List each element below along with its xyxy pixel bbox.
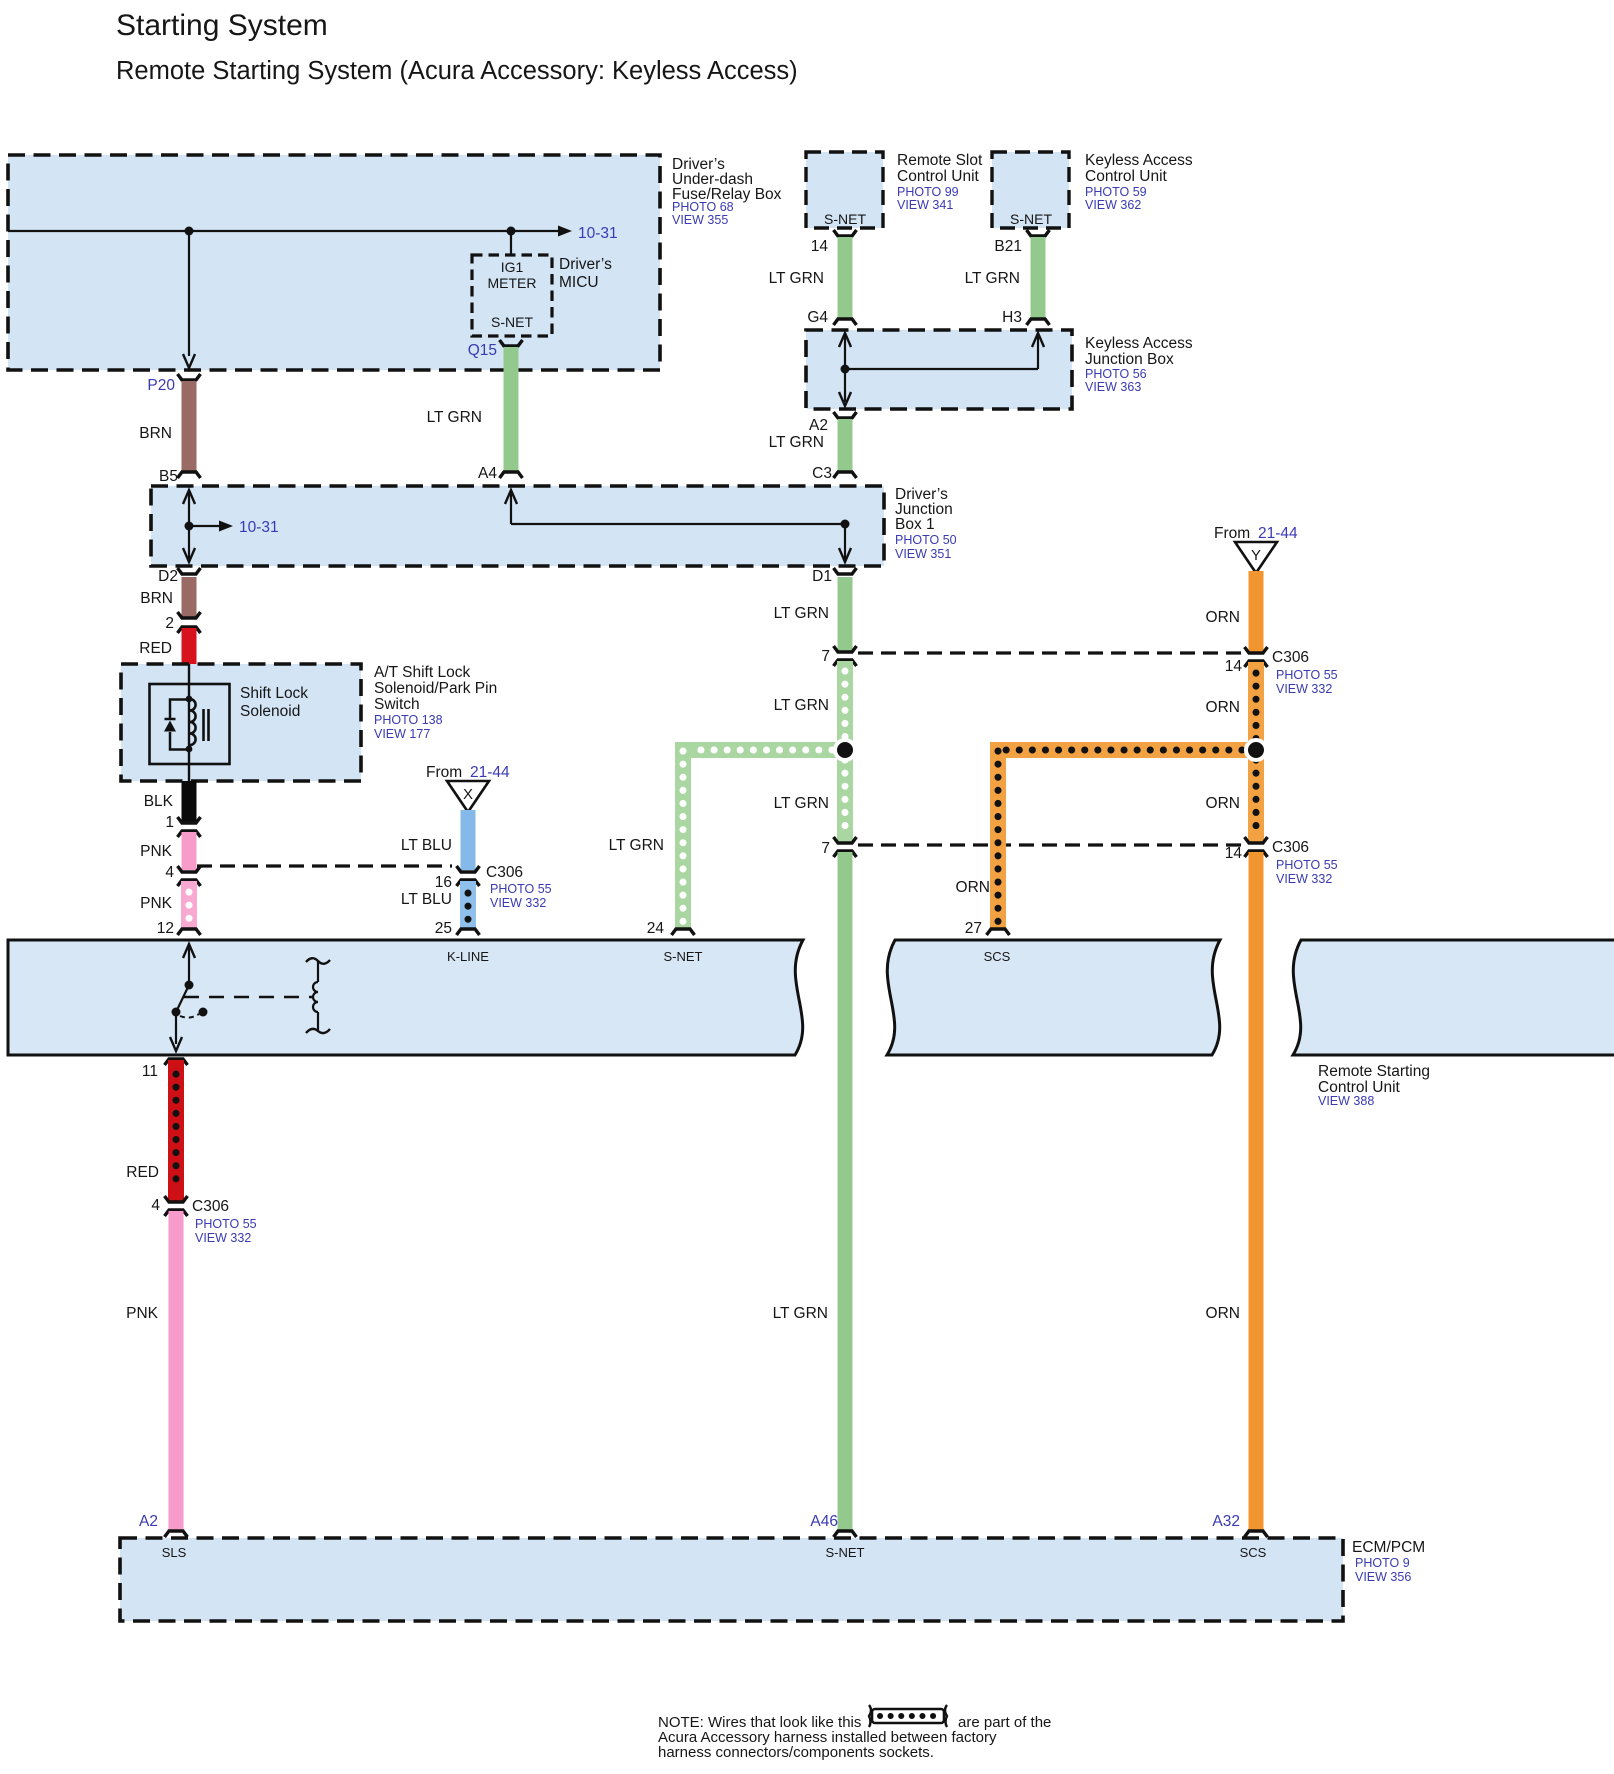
ECM/PCM box <box>120 1538 1425 1621</box>
svg-text:LT GRN: LT GRN <box>609 837 664 854</box>
wire LT GRN (B21 to H3) <box>965 237 1038 318</box>
svg-text:B5: B5 <box>159 468 178 485</box>
pin A32 (ECM) <box>1212 1513 1267 1537</box>
svg-text:PHOTO 68: PHOTO 68 <box>672 200 734 214</box>
svg-text:C306: C306 <box>1272 839 1309 856</box>
pin B21 <box>994 230 1049 255</box>
wire ORN (Y to 14) <box>1206 571 1256 652</box>
svg-text:From: From <box>1214 525 1250 542</box>
svg-text:A4: A4 <box>478 465 497 482</box>
wire BRN (D2 to 2) <box>140 577 189 617</box>
wire LT GRN dotted (7 to junction) <box>774 661 845 750</box>
svg-text:C3: C3 <box>812 465 832 482</box>
svg-text:27: 27 <box>965 920 982 937</box>
svg-text:ORN: ORN <box>1206 1305 1240 1322</box>
node From 21-44 (X) <box>426 764 510 812</box>
svg-text:LT GRN: LT GRN <box>774 795 829 812</box>
wire: internal bus in fuse/relay box <box>8 226 572 369</box>
svg-text:S-NET: S-NET <box>1010 211 1052 227</box>
svg-text:21-44: 21-44 <box>1258 525 1298 542</box>
connector pin 7 (first) <box>821 646 856 666</box>
svg-text:24: 24 <box>647 920 665 937</box>
pin 25 <box>435 920 480 937</box>
pin A2 (keyless junction box) <box>809 412 856 434</box>
svg-text:harness connectors/components: harness connectors/components sockets. <box>658 1744 934 1761</box>
wire LT GRN (A2 to C3) <box>769 419 845 471</box>
pin P20 <box>147 374 200 394</box>
svg-text:PNK: PNK <box>126 1305 159 1322</box>
svg-text:LT GRN: LT GRN <box>773 1305 828 1322</box>
wire PNK (4 to A2) <box>126 1211 176 1530</box>
svg-text:11: 11 <box>142 1063 158 1080</box>
svg-text:X: X <box>463 786 473 803</box>
svg-text:12: 12 <box>157 920 174 937</box>
svg-text:PHOTO 55: PHOTO 55 <box>490 882 552 896</box>
svg-text:RED: RED <box>126 1164 159 1181</box>
svg-text:LT GRN: LT GRN <box>427 409 482 426</box>
wire RED (2 to solenoid) <box>139 628 189 664</box>
svg-text:IG1: IG1 <box>501 259 524 275</box>
pin 24 <box>647 920 695 937</box>
svg-text:Remote Slot: Remote Slot <box>897 152 983 169</box>
svg-text:14: 14 <box>1225 658 1243 675</box>
wire LT GRN dotted branch (junction to 24) <box>609 750 845 928</box>
svg-text:METER: METER <box>488 275 537 291</box>
svg-text:LT BLU: LT BLU <box>401 891 452 908</box>
note dotted-wire glyph <box>869 1705 947 1727</box>
svg-text:RED: RED <box>139 640 172 657</box>
label: Driver's Under-dash Fuse/Relay Box <box>672 156 782 227</box>
svg-text:SCS: SCS <box>984 949 1011 964</box>
svg-text:10-31: 10-31 <box>239 519 279 536</box>
svg-text:PHOTO 50: PHOTO 50 <box>895 533 957 547</box>
svg-text:VIEW 388: VIEW 388 <box>1318 1094 1374 1108</box>
svg-text:Solenoid/Park Pin: Solenoid/Park Pin <box>374 680 497 697</box>
svg-text:14: 14 <box>811 238 829 255</box>
svg-text:ECM/PCM: ECM/PCM <box>1352 1539 1425 1556</box>
Driver's MICU sub-box IG1 METER / S-NET <box>472 255 612 336</box>
pin 12 <box>157 920 201 937</box>
node From 21-44 (Y) <box>1214 525 1298 573</box>
node junction (orange) <box>1244 738 1268 762</box>
wire LT GRN (Q15 to A4) <box>427 347 511 471</box>
svg-text:BRN: BRN <box>139 425 172 442</box>
svg-text:PHOTO 55: PHOTO 55 <box>1276 858 1338 872</box>
Remote Starting Control Unit band segment 1 <box>8 940 803 1055</box>
connector C306 pin 14 (upper) <box>1225 647 1338 696</box>
svg-text:K-LINE: K-LINE <box>447 949 489 964</box>
svg-text:A46: A46 <box>810 1513 838 1530</box>
Remote Starting Control Unit band segment 3 <box>1293 940 1614 1055</box>
svg-text:D2: D2 <box>158 568 178 585</box>
svg-text:A2: A2 <box>139 1513 158 1530</box>
svg-text:PHOTO 56: PHOTO 56 <box>1085 367 1147 381</box>
svg-text:7: 7 <box>821 840 830 857</box>
connector pin 7 (second) <box>821 837 856 857</box>
svg-text:LT GRN: LT GRN <box>769 270 824 287</box>
wire LT BLU (X to 16) <box>401 810 468 870</box>
svg-text:Q15: Q15 <box>468 342 497 359</box>
svg-text:21-44: 21-44 <box>470 764 510 781</box>
Remote Slot Control Unit <box>806 152 983 228</box>
svg-text:Keyless Access: Keyless Access <box>1085 152 1193 169</box>
svg-text:2: 2 <box>165 615 174 632</box>
svg-text:Box 1: Box 1 <box>895 516 935 533</box>
svg-text:VIEW 363: VIEW 363 <box>1085 380 1141 394</box>
svg-text:VIEW 332: VIEW 332 <box>490 896 546 910</box>
wire LT BLU dotted (16 to 25) <box>401 881 468 928</box>
svg-text:C306: C306 <box>1272 649 1309 666</box>
svg-text:PHOTO 55: PHOTO 55 <box>1276 668 1338 682</box>
svg-text:C306: C306 <box>192 1198 229 1215</box>
pin A46 (ECM) <box>810 1513 856 1537</box>
svg-text:H3: H3 <box>1002 309 1022 326</box>
svg-text:LT GRN: LT GRN <box>769 434 824 451</box>
A/T Shift Lock Solenoid box <box>121 664 497 781</box>
svg-text:4: 4 <box>165 864 174 881</box>
pin A4 <box>478 465 522 482</box>
svg-text:4: 4 <box>151 1197 160 1214</box>
pin C3 <box>812 465 856 482</box>
wire ORN dotted (junction to 14 second) <box>1206 750 1256 842</box>
wire: JB1 internal A4 to D1 <box>505 490 851 562</box>
wire LT GRN (D1 to 7) <box>774 577 845 651</box>
svg-text:D1: D1 <box>812 568 832 585</box>
svg-text:PNK: PNK <box>140 843 173 860</box>
switch symbol (park pin switch) <box>170 944 314 1051</box>
wire LT GRN (7 to A46) <box>773 852 845 1530</box>
wire LT GRN (14 to G4) <box>769 237 845 318</box>
svg-text:S-NET: S-NET <box>826 1545 865 1560</box>
svg-text:LT GRN: LT GRN <box>965 270 1020 287</box>
Keyless Access Control Unit <box>992 152 1193 228</box>
svg-text:Remote Starting System (Acura: Remote Starting System (Acura Accessory:… <box>116 57 798 85</box>
svg-text:Starting System: Starting System <box>116 9 328 42</box>
svg-text:VIEW 177: VIEW 177 <box>374 727 430 741</box>
svg-text:PHOTO 55: PHOTO 55 <box>195 1217 257 1231</box>
Keyless Access Junction Box <box>806 330 1193 409</box>
svg-text:LT GRN: LT GRN <box>774 697 829 714</box>
wire ORN dotted (14 to junction) <box>1206 662 1256 750</box>
svg-text:ORN: ORN <box>1206 795 1240 812</box>
svg-text:Remote Starting: Remote Starting <box>1318 1063 1430 1080</box>
svg-text:S-NET: S-NET <box>824 211 866 227</box>
svg-text:B21: B21 <box>994 238 1022 255</box>
svg-text:VIEW 332: VIEW 332 <box>1276 872 1332 886</box>
svg-text:A/T Shift Lock: A/T Shift Lock <box>374 664 470 681</box>
svg-text:Switch: Switch <box>374 696 420 713</box>
svg-text:VIEW 332: VIEW 332 <box>195 1231 251 1245</box>
svg-text:10-31: 10-31 <box>578 225 618 242</box>
svg-text:Control Unit: Control Unit <box>897 168 980 185</box>
label Remote Starting Control Unit <box>1318 1063 1430 1108</box>
wire BLK (solenoid to 1) <box>144 781 189 822</box>
pin D2 <box>158 568 200 585</box>
pin D1 <box>812 568 856 585</box>
svg-text:PNK: PNK <box>140 895 173 912</box>
svg-text:Control Unit: Control Unit <box>1085 168 1168 185</box>
svg-text:1: 1 <box>165 814 174 831</box>
svg-text:Junction Box: Junction Box <box>1085 351 1174 368</box>
dashed line 7 to C306/14 (upper) <box>858 651 1243 654</box>
svg-text:VIEW 356: VIEW 356 <box>1355 1570 1411 1584</box>
svg-text:MICU: MICU <box>559 274 599 291</box>
svg-text:VIEW 362: VIEW 362 <box>1085 198 1141 212</box>
Driver's Junction Box 1 <box>151 486 957 566</box>
note <box>658 1714 1051 1761</box>
wire: keyless junction box internal <box>839 333 1044 406</box>
wire ORN dotted branch (junction to 27) <box>956 750 1256 928</box>
svg-text:C306: C306 <box>486 864 523 881</box>
svg-text:VIEW 332: VIEW 332 <box>1276 682 1332 696</box>
svg-text:ORN: ORN <box>1206 699 1240 716</box>
svg-text:LT BLU: LT BLU <box>401 837 452 854</box>
svg-text:PHOTO 138: PHOTO 138 <box>374 713 443 727</box>
coil symbol in band <box>306 958 330 1033</box>
pin A2 (ECM) <box>139 1513 187 1537</box>
wire LT GRN dotted (junction to 7 second) <box>774 750 845 842</box>
wire RED dotted (11 to 4) <box>126 1060 176 1201</box>
connector C306 pin 4 (bottom) <box>151 1196 256 1245</box>
svg-text:VIEW 351: VIEW 351 <box>895 547 951 561</box>
dashed link 4 to 16 <box>197 864 452 867</box>
wire ORN (14 to A32) <box>1206 852 1256 1530</box>
pin G4 <box>807 309 856 326</box>
connector C306 pins 16/25 <box>435 864 552 910</box>
svg-text:PHOTO 59: PHOTO 59 <box>1085 185 1147 199</box>
svg-text:A2: A2 <box>809 417 828 434</box>
wire PNK dotted (4 to 12) <box>140 881 189 928</box>
pin B5 <box>159 468 200 485</box>
svg-text:S-NET: S-NET <box>664 949 703 964</box>
wire PNK (1 to 4) <box>140 832 189 870</box>
svg-text:From: From <box>426 764 462 781</box>
svg-text:PHOTO 9: PHOTO 9 <box>1355 1556 1410 1570</box>
svg-text:A32: A32 <box>1212 1513 1240 1530</box>
dashed line 7 to C306/14 (lower) <box>858 843 1243 846</box>
svg-text:25: 25 <box>435 920 452 937</box>
Driver's Under-dash Fuse/Relay Box <box>8 155 660 370</box>
svg-text:LT GRN: LT GRN <box>774 605 829 622</box>
shift lock solenoid symbol <box>150 664 309 781</box>
svg-text:VIEW 355: VIEW 355 <box>672 213 728 227</box>
svg-text:Y: Y <box>1251 547 1261 564</box>
connector pin 2 <box>165 612 200 633</box>
Remote Starting Control Unit band segment 2 <box>887 940 1220 1055</box>
pin Q15 <box>468 340 523 359</box>
connector pin 1 <box>165 814 200 837</box>
svg-text:BLK: BLK <box>144 793 174 810</box>
pin 27 <box>965 920 1010 937</box>
pin 11 <box>142 1059 188 1080</box>
pin H3 <box>1002 309 1049 326</box>
svg-text:Driver’s: Driver’s <box>559 256 612 273</box>
svg-text:Keyless Access: Keyless Access <box>1085 335 1193 352</box>
pin 14 (remote slot S-NET) <box>811 230 857 255</box>
svg-text:7: 7 <box>821 648 830 665</box>
connector C306 pin 14 (lower) <box>1225 837 1338 886</box>
svg-text:ORN: ORN <box>1206 609 1240 626</box>
svg-text:PHOTO 99: PHOTO 99 <box>897 185 959 199</box>
wire BRN (P20 to B5) <box>139 381 189 471</box>
svg-text:SCS: SCS <box>1240 1545 1267 1560</box>
svg-text:Shift Lock: Shift Lock <box>240 685 308 702</box>
svg-text:Solenoid: Solenoid <box>240 703 300 720</box>
connector C306 pins 4/12 <box>165 864 200 886</box>
svg-text:S-NET: S-NET <box>491 314 533 330</box>
svg-text:P20: P20 <box>147 377 175 394</box>
svg-text:ORN: ORN <box>956 879 990 896</box>
wire: JB1 internal left arrow <box>183 490 233 562</box>
svg-text:14: 14 <box>1225 845 1243 862</box>
svg-text:VIEW 341: VIEW 341 <box>897 198 953 212</box>
svg-text:G4: G4 <box>807 309 828 326</box>
node junction (green) <box>833 738 857 762</box>
svg-text:BRN: BRN <box>140 590 173 607</box>
svg-text:16: 16 <box>435 874 452 891</box>
svg-text:SLS: SLS <box>162 1545 187 1560</box>
